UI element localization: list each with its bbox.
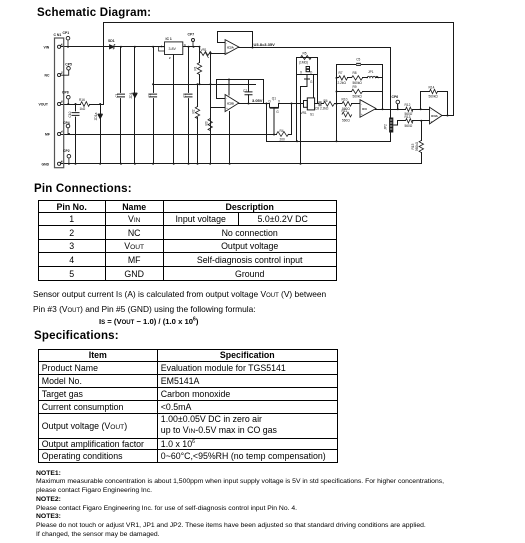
svg-text:R5: R5: [303, 52, 307, 56]
svg-text:2: 2: [61, 71, 63, 75]
svg-text:Q1: Q1: [272, 97, 276, 101]
svg-text:C10: C10: [68, 111, 72, 117]
svg-text:IC2B: IC2B: [227, 102, 235, 106]
svg-text:IC3A: IC3A: [431, 114, 439, 118]
svg-text:1: 1: [61, 42, 63, 46]
svg-text:+: +: [431, 120, 433, 124]
svg-text:S1: S1: [310, 113, 314, 117]
svg-text:G: G: [276, 110, 279, 114]
svg-text:-: -: [226, 97, 227, 101]
svg-text:R6: R6: [324, 99, 328, 103]
svg-text:IC3: IC3: [362, 107, 367, 111]
svg-text:R3: R3: [204, 121, 208, 125]
svg-text:D: D: [310, 71, 313, 75]
svg-text:R16: R16: [79, 98, 85, 102]
svg-text:VR1: VR1: [301, 111, 307, 115]
svg-text:U3.8=3.35V: U3.8=3.35V: [254, 42, 276, 47]
svg-text:C3: C3: [183, 93, 187, 97]
svg-text:JP1: JP1: [368, 70, 374, 74]
svg-text:C2: C2: [147, 93, 151, 97]
svg-text:-: -: [226, 42, 227, 46]
svg-text:+: +: [361, 112, 363, 116]
svg-text:VR1: VR1: [201, 48, 207, 52]
svg-text:3: 3: [61, 100, 63, 104]
svg-text:MF: MF: [45, 133, 50, 137]
svg-text:+: +: [226, 106, 228, 110]
svg-text:NC: NC: [45, 74, 50, 78]
svg-text:+: +: [226, 51, 228, 55]
svg-text:C7: C7: [243, 89, 247, 93]
svg-text:X: X: [300, 71, 303, 75]
svg-text:R14: R14: [429, 86, 435, 90]
svg-text:VOUT: VOUT: [39, 103, 49, 107]
svg-text:CP1: CP1: [63, 31, 70, 35]
svg-text:CP5: CP5: [65, 62, 72, 66]
svg-text:C1: C1: [115, 93, 119, 97]
svg-text:560kΩ: 560kΩ: [353, 95, 363, 99]
svg-text:C N1: C N1: [54, 33, 62, 37]
svg-text:R1: R1: [194, 66, 198, 70]
svg-text:1kΩ: 1kΩ: [80, 107, 86, 111]
svg-text:JP2: JP2: [384, 124, 388, 130]
svg-text:IC 1: IC 1: [166, 37, 172, 41]
svg-text:CP8: CP8: [62, 90, 69, 94]
svg-text:3.8V: 3.8V: [169, 47, 177, 51]
svg-text:4: 4: [61, 130, 63, 134]
svg-text:VIN: VIN: [44, 46, 50, 50]
svg-text:SD1: SD1: [108, 39, 115, 43]
svg-text:R13: R13: [405, 115, 411, 119]
svg-text:GND: GND: [42, 163, 50, 167]
svg-text:R12: R12: [405, 103, 411, 107]
svg-text:2.2kΩ: 2.2kΩ: [338, 81, 347, 85]
svg-text:R8: R8: [353, 71, 357, 75]
svg-text:R11: R11: [342, 109, 348, 113]
svg-text:CP4: CP4: [63, 121, 70, 125]
svg-text:2: 2: [169, 56, 171, 60]
svg-text:R2: R2: [192, 109, 196, 113]
svg-text:560Ω: 560Ω: [405, 124, 413, 128]
svg-text:200: 200: [280, 138, 286, 142]
svg-text:CP6: CP6: [392, 95, 399, 99]
svg-text:(1MΩ): (1MΩ): [299, 61, 308, 65]
svg-text:560Ω: 560Ω: [342, 119, 350, 123]
svg-text:CP7: CP7: [188, 32, 195, 36]
svg-text:5: 5: [61, 159, 63, 163]
svg-text:C5: C5: [356, 57, 360, 61]
svg-text:R7: R7: [339, 71, 343, 75]
svg-text:-: -: [361, 103, 362, 107]
svg-text:560kΩ: 560kΩ: [415, 141, 419, 151]
svg-text:-: -: [431, 109, 432, 113]
svg-text:R9: R9: [353, 85, 357, 89]
svg-text:ZD1a: ZD1a: [94, 112, 98, 120]
svg-text:C8 2.2kΩ: C8 2.2kΩ: [315, 106, 329, 110]
svg-text:G: G: [310, 80, 313, 84]
svg-text:R10: R10: [342, 98, 348, 102]
svg-text:X: X: [278, 100, 281, 104]
svg-text:560kΩ: 560kΩ: [429, 95, 439, 99]
svg-text:ZD1: ZD1: [129, 92, 133, 98]
svg-text:CP2: CP2: [63, 149, 70, 153]
svg-text:IC2A: IC2A: [227, 46, 235, 50]
svg-text:3.05V: 3.05V: [252, 98, 263, 103]
svg-text:R4: R4: [280, 129, 284, 133]
